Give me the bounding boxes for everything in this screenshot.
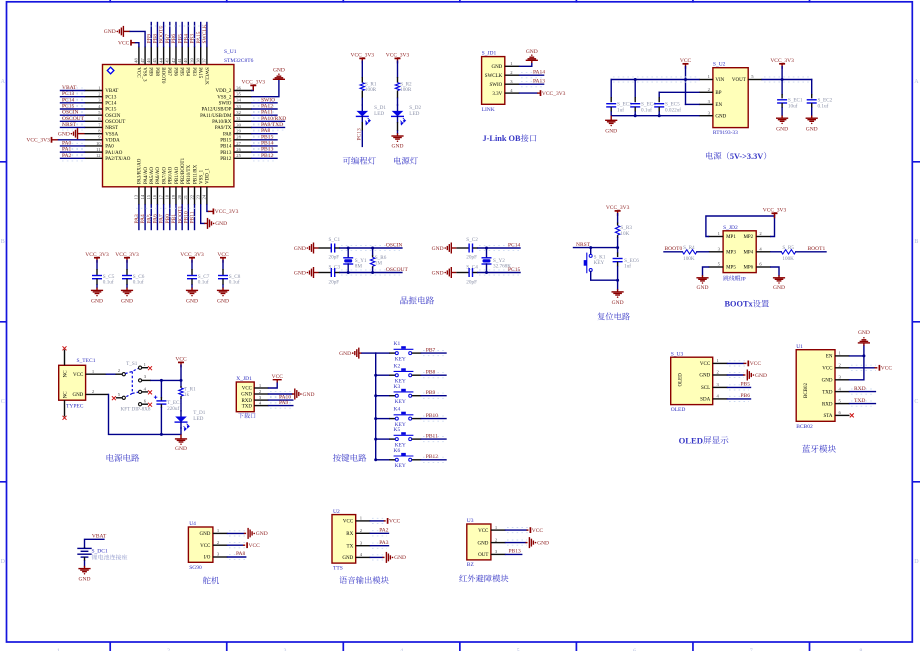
wire S_R2 to S_D2 [397, 98, 399, 105]
svg-text:220uf: 220uf [167, 405, 179, 412]
svg-text:S_U2: S_U2 [713, 62, 726, 68]
value download port [238, 413, 255, 418]
svg-text:S_U1: S_U1 [224, 49, 237, 55]
MCU pin 3 PC14 [85, 102, 103, 104]
LED S_D2 [397, 105, 399, 111]
wire net BOOT0 to pin 44 [163, 23, 165, 47]
svg-text:GND: GND [200, 532, 211, 537]
svg-text:GND: GND [215, 221, 227, 227]
junction key bus K2 [374, 374, 377, 377]
svg-text:LED: LED [374, 111, 384, 117]
push button K6 KEY [395, 458, 398, 461]
svg-text:PB14: PB14 [220, 145, 232, 150]
svg-text:SG90: SG90 [189, 565, 202, 571]
svg-text:C: C [1, 399, 5, 405]
power port VCC at MCU pin 48 [130, 40, 132, 46]
svg-text:40: 40 [183, 58, 188, 63]
svg-text:C: C [914, 399, 918, 405]
wire K4 to net PB10 [412, 418, 422, 420]
earth ground at J-Link pin 1 [526, 59, 538, 61]
svg-text:PA7/AO: PA7/AO [162, 167, 167, 184]
svg-text:GND: GND [121, 299, 133, 305]
svg-text:PB12: PB12 [220, 157, 232, 162]
svg-text:33: 33 [236, 104, 241, 109]
capacitor S_EC5 0.022uf [658, 92, 660, 97]
svg-text:11: 11 [96, 147, 101, 152]
svg-text:PA3/RX/AO: PA3/RX/AO [138, 158, 143, 184]
wire net PA14 [521, 73, 543, 78]
connector X_JD1 pin 2 GND [254, 393, 268, 395]
svg-text:VSS_2: VSS_2 [217, 95, 232, 100]
wire net BOOT1 to pin 20 [181, 205, 183, 230]
svg-text:RX: RX [346, 532, 353, 537]
connector S_JD1 pin 4 3.3V [505, 92, 520, 94]
switch T_S1 pin 6 stub [142, 403, 148, 405]
earth ground below S_EC2 [806, 117, 818, 119]
wire LED to earth [180, 434, 182, 439]
svg-text:27: 27 [236, 141, 241, 146]
push button K4 KEY [395, 417, 398, 420]
regulator pin 2 GND [699, 115, 713, 117]
ground power port at servo pin1 [247, 528, 249, 539]
svg-text:OSCOUT: OSCOUT [62, 116, 85, 122]
switch T_S1 pin 5 stub [116, 397, 122, 399]
wire OSCOUT rail [341, 270, 400, 275]
MCU pin 4 PC15 [85, 108, 103, 110]
svg-text:100R: 100R [400, 87, 412, 93]
capacitor S_C8 0.1uf [222, 261, 224, 270]
capacitor S_C7 0.1uf [191, 261, 193, 270]
section caption power circuit [107, 454, 140, 462]
junction cap T_EC1 bottom [160, 433, 163, 436]
svg-text:OLED: OLED [679, 373, 684, 387]
wire net PA6 to pin 16 [156, 205, 158, 230]
section caption [343, 157, 376, 165]
svg-text:NC: NC [63, 391, 68, 399]
power port VCC at bluetooth [878, 365, 880, 371]
svg-text:BOOTx: BOOTx [725, 300, 754, 309]
power port VCC at X_JD1 [273, 379, 282, 381]
push button S_K1 KEY [590, 248, 592, 255]
section caption power 5V to 3.3V [706, 152, 729, 160]
bluetooth pin 6 STA [835, 414, 850, 416]
svg-text:TTS: TTS [333, 566, 343, 572]
wire net SWCLK to pin 37 [206, 23, 208, 47]
svg-text:VCC_3V3: VCC_3V3 [770, 58, 794, 64]
no-ERC mark switch pin 6 [148, 403, 152, 407]
capacitor S_C5 0.1uf [96, 261, 98, 270]
svg-text:42: 42 [171, 58, 176, 63]
wire net PB10 to pin 21 [187, 205, 189, 230]
svg-text:T_S1: T_S1 [126, 361, 138, 367]
wire net PB11 to pin 22 [194, 205, 196, 230]
wire net BOOT1 [796, 251, 826, 253]
wire net PB15 to pin 28 [253, 137, 276, 142]
svg-text:PA8: PA8 [236, 551, 246, 557]
svg-text:VCC_3V3: VCC_3V3 [606, 205, 630, 211]
svg-text:STM32C8T6: STM32C8T6 [224, 58, 254, 64]
svg-text:K1: K1 [394, 341, 401, 347]
LED T_D1 [180, 411, 182, 417]
wire OLED pin2 to ground [729, 372, 744, 377]
bluetooth pin 3 GND [835, 379, 850, 381]
no-ERC mark switch pin 4 [148, 390, 152, 394]
wire net PA7 to pin 17 [163, 205, 165, 230]
svg-text:18: 18 [165, 194, 170, 199]
svg-text:VCC_3V3: VCC_3V3 [542, 91, 566, 97]
svg-text:PB13: PB13 [509, 549, 521, 555]
MCU pin 23 VSS_1 [200, 187, 202, 205]
connector X_JD1 pin 3 RXD [254, 399, 268, 401]
wire net PA0 to pin 10 [62, 143, 84, 148]
svg-text:SWIO: SWIO [261, 97, 275, 103]
svg-text:25: 25 [236, 153, 241, 158]
svg-text:PB4: PB4 [185, 67, 190, 76]
svg-text:VOUT: VOUT [732, 78, 746, 83]
MCU pin 29 PA8 [234, 133, 252, 135]
wire K5 to net PB11 [412, 438, 422, 440]
connector X_JD1 body [236, 382, 254, 412]
svg-text:VBAT: VBAT [92, 534, 107, 540]
svg-text:24: 24 [202, 194, 207, 199]
svg-text:MP2: MP2 [743, 235, 753, 240]
svg-text:VCC_3V3: VCC_3V3 [85, 252, 109, 258]
junction cap T_EC1 top [160, 379, 163, 382]
svg-text:16: 16 [152, 194, 157, 199]
svg-text:PA8: PA8 [261, 128, 271, 134]
svg-text:I/O: I/O [204, 556, 211, 561]
MCU pin 46 PB9 [150, 47, 152, 65]
svg-text:PA12: PA12 [261, 103, 273, 109]
wire net BOOT0 [664, 251, 682, 253]
svg-text:PA7: PA7 [159, 214, 165, 224]
wire bluetooth EN and GND to earth [850, 346, 864, 380]
power port VCC at servo [246, 542, 248, 548]
wire S_D2 to GND [397, 131, 399, 133]
svg-text:PA3: PA3 [379, 540, 389, 546]
earth ground below S_D2 [391, 135, 403, 137]
svg-text:35: 35 [236, 91, 241, 96]
svg-text:S_R4: S_R4 [683, 245, 695, 251]
svg-text:RT9193-33: RT9193-33 [713, 130, 738, 136]
push button K3 KEY [395, 394, 398, 397]
svg-text:22: 22 [189, 194, 194, 199]
svg-text:VCC: VCC [680, 58, 692, 64]
svg-text:SWCLK: SWCLK [202, 24, 208, 43]
svg-text:VDD_1: VDD_1 [206, 168, 211, 184]
svg-text:OSCIN: OSCIN [105, 114, 120, 119]
power port VCC_3V3 above S_R1 [359, 57, 365, 59]
svg-text:VCC: VCC [389, 519, 401, 525]
svg-text:GND: GND [491, 65, 502, 70]
svg-text:PB3: PB3 [191, 67, 196, 76]
svg-text:20: 20 [177, 194, 182, 199]
svg-text:VIN: VIN [715, 78, 724, 83]
svg-text:LINK: LINK [482, 107, 495, 113]
svg-text:KEY: KEY [395, 399, 406, 405]
svg-text:K3: K3 [394, 384, 401, 390]
svg-text:PA5/AO: PA5/AO [150, 167, 155, 184]
wire net PB1 to pin 19 [175, 205, 177, 230]
wire net NRST to pin 7 [62, 125, 84, 130]
crystal S_Y2 32.768K [486, 248, 488, 258]
MCU pin 13 PA3/RX/AO [138, 187, 140, 205]
junction NRST [616, 246, 619, 249]
MCU pin 17 PA7/AO [163, 187, 165, 205]
MCU pin 25 PB12 [234, 157, 252, 159]
svg-text:PB2/BOOT1: PB2/BOOT1 [181, 157, 186, 184]
svg-text:GND: GND [806, 126, 818, 132]
svg-text:26: 26 [236, 147, 241, 152]
svg-text:GND: GND [303, 392, 315, 398]
power port VCC_3V3 at MCU pin 36 VDD_2 [252, 88, 253, 91]
wire IR VCC [507, 528, 528, 533]
svg-text:PB10: PB10 [183, 211, 189, 223]
svg-text:PC14: PC14 [105, 102, 117, 107]
wire jumper pin6 to ground [771, 267, 779, 275]
svg-text:0.1uf: 0.1uf [198, 279, 209, 286]
svg-text:VCC: VCC [700, 362, 711, 367]
wire net PA1 to pin 11 [62, 150, 84, 155]
wire net SWIO to pin 34 [253, 100, 276, 105]
wire K6 to net PB12 [412, 459, 422, 461]
svg-text:KEY: KEY [594, 260, 605, 266]
svg-text:34: 34 [236, 98, 241, 103]
regulator pin 3 EN [699, 103, 713, 105]
MCU pin 38 PA15 [200, 47, 202, 65]
wire K3 to net PB9 [412, 395, 422, 397]
wire net PB5 at OLED [729, 385, 749, 390]
servo pin 2 VCC [213, 544, 228, 546]
MCU pin 44 BOOT0 [163, 47, 165, 65]
svg-text:MP4: MP4 [743, 251, 753, 256]
svg-text:0.1uf: 0.1uf [818, 102, 829, 109]
wire net OSCIN to pin 5 [62, 113, 84, 118]
switch T_S1 pole 2 pin 5 [122, 396, 125, 399]
svg-text:SWIO: SWIO [490, 83, 503, 88]
push button K1 KEY [395, 352, 398, 355]
svg-text:PA6: PA6 [153, 214, 159, 224]
wire net PC13 from S_D1 [361, 131, 363, 146]
MCU pin 5 OSCIN [85, 114, 103, 116]
svg-text:GND: GND [79, 577, 91, 583]
svg-text:VSS_3: VSS_3 [141, 67, 146, 82]
svg-text:37: 37 [202, 58, 207, 63]
svg-text:SWIO: SWIO [219, 102, 232, 107]
svg-text:PB5: PB5 [179, 67, 184, 76]
ground power port at MCU pin 8 VSSA [78, 133, 85, 135]
svg-text:PB10: PB10 [426, 413, 438, 419]
svg-text:PB6: PB6 [741, 393, 751, 399]
power port VCC_3V3 above S_C6 [124, 257, 130, 259]
svg-text:OLED: OLED [671, 407, 686, 413]
MCU pin 21 PB10/TX [187, 187, 189, 205]
svg-text:GND: GND [58, 131, 70, 137]
svg-text:PB12: PB12 [426, 454, 438, 460]
MCU pin 43 PB7 [169, 47, 171, 65]
svg-text:BP: BP [715, 91, 721, 96]
MCU pin 14 PA4/AO [144, 187, 146, 205]
svg-text:VCC: VCC [175, 357, 187, 363]
wire net PA9/TXD to pin 30 [253, 125, 284, 130]
svg-text:U1: U1 [796, 344, 803, 350]
connector S_JD1 pin 3 SWIO [505, 83, 520, 85]
servo pin 1 GND [213, 532, 228, 534]
module U1 bluetooth body [796, 350, 835, 422]
svg-text:OSCOUT: OSCOUT [386, 267, 409, 273]
svg-text:VCC: VCC [750, 361, 762, 367]
switch T_S1 pole 1 [122, 373, 125, 376]
svg-text:K2: K2 [394, 363, 401, 369]
svg-text:VDD_2: VDD_2 [216, 89, 232, 94]
svg-text:MP3: MP3 [726, 251, 736, 256]
svg-text:14: 14 [140, 194, 145, 199]
resistor S_R2 100R [397, 77, 399, 83]
capacitor S_EC1 10uf [781, 80, 783, 95]
servo pin 3 I/O [213, 556, 228, 558]
wire net PA13 [521, 82, 543, 87]
voice pin 1 VCC [356, 520, 371, 522]
svg-text:GND: GND [339, 351, 351, 357]
svg-text:PA4/AO: PA4/AO [144, 167, 149, 184]
svg-text:RXD: RXD [854, 386, 866, 392]
wire X_JD1 pin1 to VCC [269, 383, 278, 389]
svg-text:10uf: 10uf [788, 102, 798, 109]
svg-text:PC14: PC14 [508, 242, 520, 248]
capacitor S_C2 20pF [456, 247, 469, 249]
svg-text:PA15: PA15 [197, 67, 202, 78]
resistor T_R1 1k [180, 380, 182, 386]
svg-text:PC13: PC13 [62, 91, 74, 97]
wire battery to ground [84, 561, 86, 566]
svg-text:20pF: 20pF [329, 279, 340, 285]
svg-text:OSCOUT: OSCOUT [105, 120, 125, 125]
svg-text:VBAT: VBAT [105, 89, 118, 94]
junction caps [634, 78, 637, 81]
svg-text:STA: STA [823, 414, 832, 419]
frame zone ticks left and right [0, 162, 920, 482]
ground power port at IR GND [528, 537, 530, 548]
svg-text:PB11/RX: PB11/RX [193, 164, 198, 184]
frame zone ticks bottom ruler [110, 642, 809, 651]
svg-text:15: 15 [146, 194, 151, 199]
wire J-Link pin4 to VCC_3V3 [520, 92, 538, 94]
section caption [394, 157, 418, 165]
svg-text:VCC: VCC [822, 367, 833, 372]
module U3 infrared body [467, 524, 491, 560]
svg-text:PA6/AO: PA6/AO [156, 167, 161, 184]
svg-text:PB13: PB13 [220, 151, 232, 156]
section caption crystal circuit [400, 296, 434, 304]
svg-text:B: B [914, 239, 918, 245]
earth ground at MCU pin 35 VSS_2 [252, 79, 279, 96]
svg-text:JP: JP [741, 276, 746, 282]
svg-text:1uf: 1uf [617, 106, 624, 113]
no-ERC mark bottom NC [63, 416, 67, 420]
TYPEC pin 2 GND [86, 393, 109, 395]
svg-text:U3: U3 [467, 518, 474, 524]
section caption servo [203, 577, 219, 585]
TYPEC NC pin top [64, 350, 66, 366]
svg-text:VCC: VCC [135, 67, 140, 78]
junction bluetooth EN [862, 354, 865, 357]
ghost rows around MCU pin bundles (decorative) [136, 26, 208, 217]
MCU pin 15 PA5/AO [150, 187, 152, 205]
connector S_JD1 pin 1 GND [505, 65, 520, 67]
resistor S_R6 1M [372, 248, 374, 255]
MCU pin 20 PB2/BOOT1 [181, 187, 183, 205]
MCU pin 39 PB3 [194, 47, 196, 65]
svg-text:PA8: PA8 [223, 132, 232, 137]
ground power port at MCU pin 47 VSS_3 [123, 30, 130, 32]
junctions crystal 2 [485, 247, 488, 250]
wire BP rail [659, 91, 699, 93]
svg-text:PB9: PB9 [148, 67, 153, 76]
MCU pin 2 PC13 [85, 96, 103, 98]
svg-text:PA2: PA2 [62, 153, 72, 159]
svg-text:D: D [914, 559, 919, 565]
svg-text:46: 46 [146, 58, 151, 63]
svg-text:PB6: PB6 [172, 67, 177, 76]
svg-text:VCC_3V3: VCC_3V3 [386, 53, 410, 59]
MCU pin 11 PA1/AO [85, 151, 103, 153]
MCU pin 45 PB8 [156, 47, 158, 65]
svg-text:EN: EN [715, 103, 722, 108]
svg-text:0.1uf: 0.1uf [103, 279, 114, 286]
wire voice VCC [372, 518, 385, 523]
svg-text:39: 39 [189, 58, 194, 63]
svg-text:X_JD1: X_JD1 [236, 376, 252, 382]
wire OSCIN rail [341, 245, 400, 250]
MCU pin 41 PB5 [181, 47, 183, 65]
connector S_JD1 J-Link body [482, 57, 505, 105]
MCU pin 19 PB1/AO [175, 187, 177, 205]
voice pin 2 RX [356, 532, 371, 534]
switch T_S1 pin 6 [139, 403, 142, 406]
wire net PB0 to pin 18 [169, 205, 171, 230]
wire OLED pin1 to VCC [729, 361, 745, 366]
switch T_S1 pin 1 stub [142, 367, 148, 369]
svg-text:GND: GND [186, 299, 198, 305]
svg-text:PB1/AO: PB1/AO [175, 166, 180, 184]
OLED pin 1 VCC [713, 362, 728, 364]
MCU pin 1 VBAT [85, 90, 103, 92]
svg-text:41: 41 [177, 58, 182, 63]
svg-text:VCC: VCC [272, 374, 284, 380]
svg-text:32.768K: 32.768K [493, 264, 511, 270]
MCU pin 8 VSSA [85, 133, 103, 135]
MCU pin 36 VDD_2 [234, 90, 252, 92]
connector X_JD1 pin 1 VCC [254, 387, 268, 389]
OLED pin 4 SDA [713, 398, 728, 400]
svg-text:PA3: PA3 [134, 214, 140, 224]
wire net PC14 [479, 245, 519, 250]
svg-text:OSCIN: OSCIN [62, 110, 79, 116]
svg-text:VCC_3V3: VCC_3V3 [763, 207, 787, 213]
wire net PB6 to pin 42 [175, 23, 177, 47]
svg-text:PB8: PB8 [154, 67, 159, 76]
svg-text:S_U3: S_U3 [671, 351, 684, 357]
IR pin 1 VCC [491, 529, 506, 531]
wire net PC15 to pin 4 [62, 106, 84, 111]
svg-text:GND: GND [72, 393, 83, 398]
svg-text:GND: GND [715, 114, 726, 119]
OLED pin 2 GND [713, 374, 728, 376]
svg-text:PA4: PA4 [140, 214, 146, 224]
module U4 servo body [188, 527, 213, 562]
svg-text:GND: GND [273, 67, 285, 73]
capacitor S_C6 0.1uf [126, 261, 128, 270]
